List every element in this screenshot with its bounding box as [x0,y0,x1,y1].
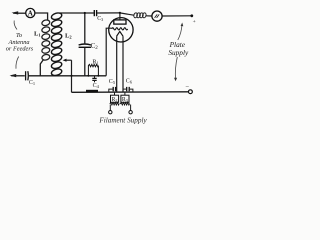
annotation : To Antenna or Feeders [6,32,34,53]
svg-text:–: – [185,84,190,90]
wire : meter to plate supply terminal [162,15,192,17]
capacitor C4 [92,76,96,83]
svg-text:C4: C4 [93,83,100,89]
rheostat R2 [109,92,120,114]
terminal : plate supply - [185,84,193,94]
svg-text:R1: R1 [92,58,98,65]
svg-text:R2: R2 [112,97,118,103]
wire : bottom rail to negative terminal [72,91,191,92]
meter mA [152,11,162,21]
svg-text:C2: C2 [91,42,99,51]
svg-text:R3: R3 [122,97,128,103]
wire : top rail L2 to C3 [59,12,94,14]
wire : top rail C3 to plate junction [97,12,120,14]
leader line : text to bottom feeder [16,57,19,69]
svg-text:L2: L2 [65,33,72,40]
wire : bottom antenna feeder with arrowhead [10,74,25,77]
svg-text:C3: C3 [97,16,103,22]
junction : plate lead on top rail [119,12,121,14]
svg-text:+: + [193,19,196,25]
svg-text:Supply: Supply [168,48,189,57]
svg-text:Filament Supply: Filament Supply [98,116,147,124]
tap arrow on L2 [63,59,72,62]
RF choke [133,12,146,18]
bypass capacitor C6 [123,87,133,92]
wire : L1 bottom lead [40,60,43,76]
filament lead : right leg [122,36,124,92]
junction : tap crossing bottom horizontal [70,75,72,77]
wire : ammeter to L1 top [35,13,48,21]
leader line : text to top feeder [14,21,17,30]
capacitor C3 [94,10,96,16]
wire : bottom horizontal from C1 to grid corner [29,75,106,77]
svg-text:or Feeders: or Feeders [6,46,34,53]
leader arrow : Plate Supply down to - terminal [174,57,177,81]
svg-text:C5: C5 [109,79,116,85]
resistor R1 grid leak [87,64,99,76]
rheostat R3 [120,92,132,114]
wire : grid lead to bottom horizontal [106,28,112,76]
wire : top antenna feeder with arrowhead [12,11,26,14]
wire : plate junction to RF choke [120,13,134,15]
svg-text:L1: L1 [34,31,41,38]
leader arrow : Plate Supply up to + terminal [178,23,184,41]
variable capacitor C2 with leads [79,13,91,76]
annotation : Plate Supply [168,40,189,57]
capacitor C1 [26,71,29,80]
antenna coil L1 [41,19,50,61]
ammeter A [26,8,35,17]
wire : RF choke to meter [146,15,152,17]
svg-text:C1: C1 [29,80,35,86]
grid coil L2 [51,12,63,77]
terminal : plate supply + [190,14,195,25]
bypass capacitor C5 [109,87,117,92]
svg-text:A: A [28,10,33,18]
filament lead : left leg [116,36,118,92]
triode tube V1 [109,13,133,42]
wire : tap down to bottom rail [71,60,73,92]
svg-text:C6: C6 [126,78,133,84]
junction : C2 top on rail [84,12,86,14]
